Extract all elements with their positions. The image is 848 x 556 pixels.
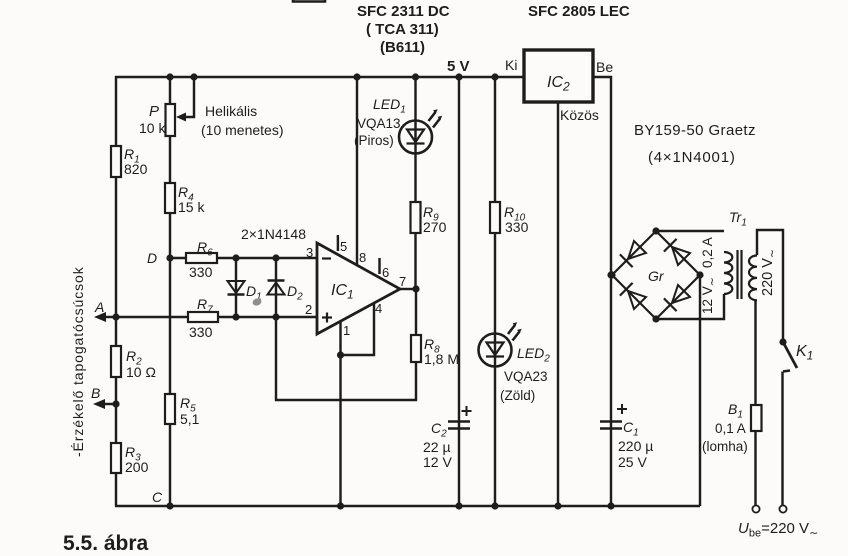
wire op-amp pin 8 supply xyxy=(356,77,358,265)
switch K1 label xyxy=(796,343,813,363)
resistor R2 xyxy=(111,346,121,377)
fuse B1 label xyxy=(728,401,743,421)
transformer primary rating xyxy=(760,249,779,296)
wire top 5V supply rail xyxy=(115,76,524,78)
switch K1 xyxy=(779,338,797,368)
svg-text:B: B xyxy=(91,385,100,401)
svg-text:C2: C2 xyxy=(431,420,447,440)
svg-text:15 k: 15 k xyxy=(178,199,205,215)
wire R10 LED2 branch xyxy=(494,77,496,506)
IC1 type note xyxy=(357,3,450,56)
resistor R7 label and value xyxy=(189,296,213,340)
regulator IC2 label xyxy=(547,74,570,94)
svg-text:Tr1: Tr1 xyxy=(729,209,747,229)
svg-text:12 V∼: 12 V∼ xyxy=(700,277,719,314)
svg-text:(lomha): (lomha) xyxy=(702,439,748,454)
svg-text:VQA13: VQA13 xyxy=(357,116,401,131)
svg-text:Közös: Közös xyxy=(560,107,599,123)
node C label xyxy=(152,489,163,505)
svg-text:SFC 2311 DC: SFC 2311 DC xyxy=(357,3,450,20)
resistor R1 xyxy=(111,146,121,177)
svg-text:A: A xyxy=(94,299,104,315)
svg-text:Helikális: Helikális xyxy=(205,103,257,119)
svg-text:-Érzékelő tapogatócsúcsok: -Érzékelő tapogatócsúcsok xyxy=(70,266,86,457)
svg-text:BY159-50 Graetz: BY159-50 Graetz xyxy=(634,122,756,139)
LED2 type VQA23 xyxy=(504,369,548,384)
capacitor C1 value xyxy=(618,438,653,470)
op-amp IC1 xyxy=(317,243,400,334)
capacitor C1 label xyxy=(623,419,639,439)
IC1 pin 7 label xyxy=(399,274,406,289)
svg-text:820: 820 xyxy=(124,161,148,177)
resistor R4 label and value xyxy=(178,184,205,215)
wire node A row to op-amp pin 2 xyxy=(98,316,317,318)
op-amp inverting input minus sign xyxy=(322,257,331,259)
svg-text:10 k: 10 k xyxy=(139,120,166,136)
svg-text:Ube=220 V∼: Ube=220 V∼ xyxy=(738,520,818,540)
IC2 pin Kozos label xyxy=(560,107,599,123)
resistor R3 label and value xyxy=(125,444,149,475)
resistor R1 label and value xyxy=(124,146,148,177)
fuse B1 value xyxy=(702,421,748,454)
svg-text:LED2: LED2 xyxy=(517,345,550,365)
LED2 color Zold xyxy=(500,388,535,403)
resistor R10 xyxy=(490,202,500,233)
cut-off box at top edge xyxy=(293,0,325,2)
paper speck near D1 xyxy=(252,297,263,307)
IC1 pin 5 stub xyxy=(337,235,339,251)
node A arrow xyxy=(94,312,106,322)
svg-text:(Zöld): (Zöld) xyxy=(500,388,535,403)
diode D2 xyxy=(268,281,285,295)
svg-text:VQA23: VQA23 xyxy=(504,369,548,384)
node B label xyxy=(91,385,100,401)
node B arrow xyxy=(93,399,105,409)
svg-text:0,2 A: 0,2 A xyxy=(700,237,715,268)
svg-text:22 µ: 22 µ xyxy=(423,439,451,455)
capacitor C2 plus sign xyxy=(462,406,472,416)
IC1 pin 1 label xyxy=(343,323,350,338)
LED1 xyxy=(399,121,432,154)
fuse B1 xyxy=(751,405,762,431)
svg-text:4: 4 xyxy=(375,301,382,316)
LED1 label xyxy=(373,96,406,116)
resistor R5 xyxy=(165,394,175,424)
wire transformer secondary bottom return xyxy=(656,294,724,319)
svg-text:(4×1N4001): (4×1N4001) xyxy=(648,149,736,166)
capacitor C2 xyxy=(448,422,470,429)
resistor R10 label and value xyxy=(504,204,529,235)
wire C2 branch xyxy=(458,77,460,506)
svg-text:K1: K1 xyxy=(796,343,813,363)
LED1 light rays xyxy=(429,109,443,127)
svg-text:P: P xyxy=(149,103,159,120)
wire op-amp output to node xyxy=(400,288,416,290)
svg-text:6: 6 xyxy=(382,265,389,280)
op-amp non-inverting plus sign xyxy=(322,313,332,323)
svg-text:1,8 M: 1,8 M xyxy=(424,351,459,367)
transformer secondary rating xyxy=(700,237,719,314)
resistor R7 xyxy=(188,312,218,322)
IC1 pin 6 label xyxy=(382,265,389,280)
svg-text:270: 270 xyxy=(423,219,447,235)
mains terminal left xyxy=(752,505,759,512)
wire op-amp pin 1 to ground xyxy=(339,320,341,506)
resistor R8 xyxy=(411,335,421,362)
svg-text:(B611): (B611) xyxy=(380,39,425,56)
svg-text:5.5. ábra: 5.5. ábra xyxy=(63,532,149,555)
bridge diode upper-left xyxy=(620,241,646,267)
wire LED1 R9 branch xyxy=(414,77,416,289)
wire node D row to op-amp pin 3 xyxy=(170,257,317,259)
resistor R6 xyxy=(186,253,217,263)
wire IC2 Be to rectifier xyxy=(593,77,611,506)
wire IC2 kozos to ground xyxy=(557,102,559,506)
wire transformer primary top to switch xyxy=(757,230,783,342)
diode D1 xyxy=(228,281,245,295)
svg-text:Be: Be xyxy=(596,59,613,75)
svg-text:5: 5 xyxy=(340,239,347,254)
capacitor C2 label xyxy=(431,420,447,440)
IC2 pin Be label xyxy=(596,59,613,75)
resistor R5 label and value xyxy=(180,395,200,427)
diode D1 label xyxy=(246,283,262,303)
resistor R4 xyxy=(165,183,175,213)
wire diode D1 branch xyxy=(235,258,237,317)
IC1 pin 8 label xyxy=(359,250,366,265)
IC1 pin 4 label xyxy=(375,301,382,316)
svg-text:2: 2 xyxy=(305,302,312,317)
IC2 pin Ki label xyxy=(505,57,517,73)
node D label xyxy=(147,250,157,266)
svg-text:25 V: 25 V xyxy=(618,454,647,470)
IC2 type note xyxy=(528,3,630,20)
diodes type note xyxy=(241,226,306,242)
LED2 xyxy=(479,334,512,367)
svg-text:8: 8 xyxy=(359,250,366,265)
svg-text:LED1: LED1 xyxy=(373,96,406,116)
svg-text:5,1: 5,1 xyxy=(180,411,200,427)
IC1 pin 3 label xyxy=(306,245,313,260)
resistor R9 xyxy=(411,202,421,233)
wire node B stub xyxy=(98,403,116,405)
bridge diode lower-right xyxy=(664,285,690,311)
transformer Tr1 primary winding xyxy=(749,256,757,301)
transformer Tr1 secondary winding xyxy=(724,252,732,294)
svg-text:10 Ω: 10 Ω xyxy=(126,364,156,380)
op-amp IC1 label xyxy=(331,282,354,302)
net 5V label xyxy=(447,58,470,75)
svg-text:1: 1 xyxy=(343,323,350,338)
bridge label Gr xyxy=(648,268,665,284)
wire left sensor rail xyxy=(115,76,117,506)
wire transformer primary bottom to fuse xyxy=(754,300,756,507)
potentiometer note Helikalis xyxy=(201,103,283,138)
capacitor C1 xyxy=(600,422,622,429)
svg-text:12 V: 12 V xyxy=(423,454,452,470)
svg-text:B1: B1 xyxy=(728,401,743,421)
svg-text:D: D xyxy=(147,250,157,266)
resistor R6 label and value xyxy=(189,239,213,280)
svg-text:( TCA 311): ( TCA 311) xyxy=(366,21,439,38)
svg-text:(Piros): (Piros) xyxy=(354,133,394,148)
IC1 pin 5 label xyxy=(340,239,347,254)
svg-text:330: 330 xyxy=(505,219,529,235)
bridge diode lower-left xyxy=(620,283,646,309)
svg-text:Gr: Gr xyxy=(648,268,665,284)
figure caption xyxy=(63,532,149,555)
LED2 label xyxy=(517,345,550,365)
wire op-amp pin 4 strap xyxy=(341,303,375,355)
potentiometer P xyxy=(166,104,176,136)
svg-text:2×1N4148: 2×1N4148 xyxy=(241,226,306,242)
transformer Tr1 core xyxy=(738,250,742,299)
bridge type note xyxy=(634,122,756,166)
wire switch to mains terminal xyxy=(783,371,791,507)
regulator IC2 xyxy=(524,50,593,102)
node A label xyxy=(94,299,104,315)
wire rectifier minus drop xyxy=(699,275,701,506)
svg-text:220 µ: 220 µ xyxy=(618,438,653,454)
svg-text:SFC 2805 LEC: SFC 2805 LEC xyxy=(528,3,630,20)
diode D2 label xyxy=(287,283,303,303)
capacitor C2 value xyxy=(423,439,452,470)
svg-text:D2: D2 xyxy=(287,283,303,303)
svg-text:(10 menetes): (10 menetes) xyxy=(201,122,283,138)
svg-text:220 V∼: 220 V∼ xyxy=(760,249,779,296)
resistor R3 xyxy=(111,443,121,473)
svg-text:330: 330 xyxy=(189,264,213,280)
potentiometer P label and value xyxy=(139,103,166,136)
wire potentiometer wiper xyxy=(176,77,194,122)
resistor R8 label and value xyxy=(424,336,459,367)
wire diode D2 branch xyxy=(275,258,277,317)
svg-text:330: 330 xyxy=(189,324,213,340)
sensor probes note xyxy=(70,266,86,457)
transformer Tr1 label xyxy=(729,209,747,229)
wire bottom common rail xyxy=(115,505,700,507)
svg-text:200: 200 xyxy=(125,459,149,475)
bridge rectifier Gr outline xyxy=(612,231,700,319)
svg-text:C: C xyxy=(152,489,163,505)
capacitor C1 plus sign xyxy=(617,404,627,414)
IC1 pin 2 label xyxy=(305,302,312,317)
wire R8 feedback xyxy=(276,289,416,400)
svg-text:7: 7 xyxy=(399,274,406,289)
LED1 type VQA13 xyxy=(357,116,401,131)
svg-text:0,1 A: 0,1 A xyxy=(715,421,746,436)
LED2 light rays xyxy=(508,322,522,340)
svg-text:5 V: 5 V xyxy=(447,58,470,75)
svg-text:3: 3 xyxy=(306,245,313,260)
IC1 pin 6 stub xyxy=(378,258,380,274)
wire potentiometer branch vertical xyxy=(169,77,171,506)
svg-text:Ki: Ki xyxy=(505,57,517,73)
LED1 color Piros xyxy=(354,133,394,148)
resistor R9 label and value xyxy=(423,204,447,235)
wire rectifier top to transformer xyxy=(656,230,724,232)
bridge diode upper-right xyxy=(664,239,690,265)
mains voltage label xyxy=(738,520,818,540)
svg-text:C1: C1 xyxy=(623,419,639,439)
resistor R2 label and value xyxy=(126,348,156,380)
mains terminal right xyxy=(779,505,786,512)
